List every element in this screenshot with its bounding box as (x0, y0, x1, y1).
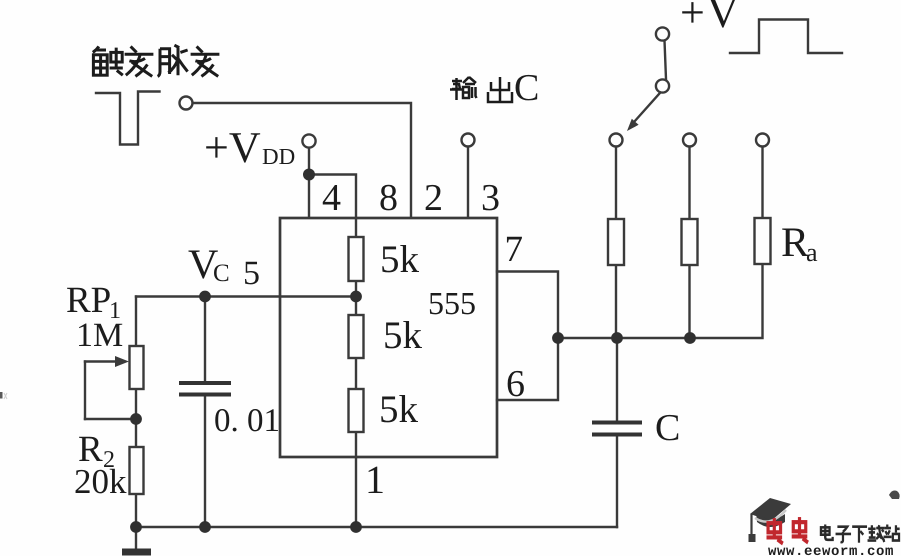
svg-text:C: C (514, 67, 539, 109)
svg-text:www.eeworm.com: www.eeworm.com (768, 544, 894, 556)
